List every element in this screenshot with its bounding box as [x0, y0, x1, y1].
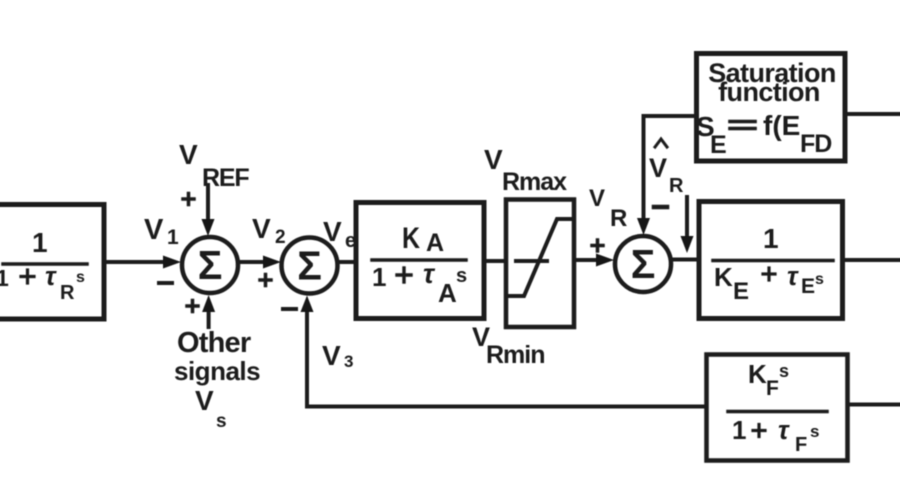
limiter saturation curve	[509, 219, 572, 296]
svg-text:τ: τ	[423, 259, 436, 289]
node V1 label	[144, 214, 179, 249]
svg-text:Other: Other	[177, 327, 251, 359]
equals sign in saturation label	[730, 120, 755, 124]
annotation arrow onto S3 output wire	[685, 197, 689, 240]
svg-text:Σ: Σ	[198, 242, 223, 288]
svg-text:F: F	[766, 377, 779, 400]
svg-text:τ: τ	[787, 261, 799, 291]
svg-text:V: V	[195, 385, 214, 416]
svg-text:V: V	[484, 144, 503, 175]
wire S3 to exciter block	[671, 258, 699, 262]
wire saturation block output right	[845, 112, 900, 116]
svg-text:V: V	[649, 153, 667, 183]
plus sign S2 left input	[260, 278, 271, 282]
node V2 label	[252, 213, 286, 248]
svg-text:function: function	[718, 77, 820, 107]
plus sign V_REF input	[183, 197, 194, 201]
svg-text:1: 1	[372, 262, 386, 292]
wire saturation feedback into S3	[642, 116, 646, 222]
wire limiter to summer S3	[574, 258, 598, 262]
value label K_F s/(1+tau_F s)	[732, 359, 819, 456]
summing junction S1	[182, 237, 238, 293]
minus sign S1 left input	[159, 281, 172, 285]
label V_R hat annotation	[649, 153, 684, 197]
svg-text:1: 1	[732, 415, 746, 445]
svg-text:A: A	[438, 278, 457, 308]
svg-text:1: 1	[763, 223, 779, 254]
svg-text:3: 3	[344, 352, 353, 371]
svg-text:R: R	[669, 175, 684, 197]
svg-text:K: K	[714, 262, 733, 292]
svg-text:A: A	[426, 229, 444, 257]
svg-text:E: E	[733, 278, 749, 305]
svg-text:R: R	[60, 282, 75, 304]
svg-text:1: 1	[167, 226, 179, 249]
wire exciter output to edge	[843, 258, 900, 262]
svg-text:signals: signals	[174, 356, 260, 386]
svg-text:s: s	[216, 411, 227, 432]
wire stabilizer feedback to S2	[307, 405, 707, 409]
svg-text:V: V	[322, 340, 341, 371]
value label 1/(1+tau_R s)	[0, 227, 85, 304]
label V_Rmax	[484, 144, 567, 196]
label V_Rmin	[472, 322, 545, 369]
plus sign other-signals input	[187, 304, 198, 308]
svg-text:s: s	[76, 269, 85, 286]
plus sign S3 left input	[592, 244, 603, 248]
svg-text:s: s	[815, 271, 824, 288]
block K_A/(1+tau_A s) amplifier	[356, 203, 484, 319]
label Other signals V_s	[174, 327, 260, 432]
svg-text:Σ: Σ	[631, 241, 656, 287]
svg-text:K: K	[402, 222, 420, 255]
svg-text:E: E	[801, 275, 815, 298]
node V_R label	[589, 185, 627, 232]
svg-text:s: s	[810, 422, 819, 441]
svg-text:2: 2	[275, 227, 286, 248]
svg-text:E: E	[710, 131, 727, 159]
svg-text:V: V	[323, 216, 342, 247]
svg-text:s: s	[779, 361, 789, 381]
wire feedback from edge into stabilizer block	[848, 403, 900, 407]
svg-text:Σ: Σ	[297, 243, 322, 289]
wire block1 to summer S1	[104, 260, 165, 264]
wire V_REF input arrow	[206, 185, 210, 222]
svg-text:Rmin: Rmin	[486, 341, 545, 369]
node Ve label	[323, 216, 356, 252]
node V3 label	[322, 340, 353, 371]
summing junction S3	[615, 236, 671, 292]
svg-text:V: V	[252, 213, 271, 244]
svg-text:F: F	[795, 434, 807, 456]
svg-text:s: s	[456, 265, 467, 287]
wire amplifier to limiter	[484, 259, 506, 263]
wire S2 to amplifier block	[338, 260, 357, 264]
wire other-signals input arrow	[207, 310, 211, 327]
block limiter V_Rmax/V_Rmin	[506, 200, 574, 328]
minus sign S3 top input	[654, 205, 667, 210]
svg-text:V: V	[179, 139, 198, 170]
svg-text:V: V	[144, 214, 164, 246]
wire S1 to summer S2	[238, 260, 266, 264]
svg-text:1: 1	[0, 265, 9, 291]
svg-text:Rmax: Rmax	[502, 168, 567, 196]
svg-text:K: K	[748, 359, 767, 389]
svg-text:FD: FD	[800, 130, 831, 158]
node V_REF label	[179, 139, 249, 192]
svg-text:V: V	[589, 185, 605, 212]
svg-text:τ: τ	[778, 415, 790, 445]
minus sign S2 bottom input	[283, 307, 296, 311]
block K_F s/(1+tau_F s) stabilizer	[707, 355, 848, 461]
svg-text:R: R	[610, 205, 627, 232]
label Saturation function S_E = f(E_FD	[696, 58, 836, 159]
svg-text:1: 1	[32, 227, 48, 258]
block 1/(K_E + tau_E s) exciter	[699, 202, 843, 319]
summing junction S2	[282, 238, 338, 294]
value label K_A/(1+tau_A s)	[372, 222, 467, 308]
value label 1/(K_E+tau_E s)	[714, 223, 824, 305]
svg-text:f(E: f(E	[763, 110, 800, 141]
block 1/(1+tau_R s) input filter	[0, 205, 104, 320]
block saturation function	[697, 54, 846, 162]
